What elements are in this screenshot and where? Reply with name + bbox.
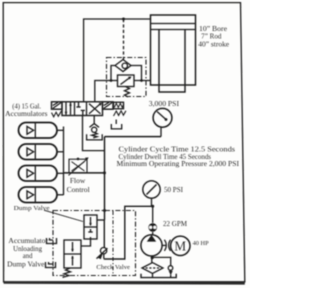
gauge G1 (153, 108, 172, 127)
cylinder barrel (151, 15, 196, 85)
svg-text:Accumulators: Accumulators (5, 110, 48, 118)
svg-text:10” Bore: 10” Bore (199, 26, 227, 33)
cylinder rod (159, 30, 185, 93)
check ball (92, 127, 97, 132)
leader line (44, 210, 83, 221)
node J4 enclosure entry (103, 209, 106, 212)
enclosure counterbalance (dash-dot) (107, 58, 147, 97)
svg-text:Dump Valve: Dump Valve (7, 262, 44, 269)
wire V1 to V2 (81, 239, 91, 246)
drain tank left upper (50, 238, 54, 240)
spring V2 (63, 268, 71, 277)
svg-text:50 PSI: 50 PSI (164, 186, 184, 194)
wire pump line to check (104, 206, 153, 259)
wire pump column upper (152, 206, 154, 223)
wire valve T-port (83, 116, 105, 151)
check spring (92, 132, 98, 138)
svg-text:and: and (23, 253, 33, 260)
svg-text:Check Valve: Check Valve (96, 264, 130, 271)
wire accumulator bus (63, 127, 65, 196)
solenoid right (103, 102, 114, 109)
position center blocked (78, 102, 80, 107)
check valve CV2 (103, 254, 105, 259)
drain tank left lower (49, 262, 54, 264)
svg-text:Minimum Operating Pressure 2,0: Minimum Operating Pressure 2,000 PSI (117, 160, 240, 168)
drain stub right (115, 120, 117, 125)
motor M1 (171, 236, 190, 255)
accumulator A2 (19, 144, 58, 160)
valve body 4/3 (62, 102, 103, 116)
wire meter to pump (152, 232, 154, 235)
node J2 bypass right (140, 79, 143, 82)
wire pump suction (151, 256, 153, 263)
pump P1 (141, 235, 162, 256)
node suction (151, 256, 154, 259)
check valve P (seat) (90, 124, 100, 128)
wire flow control line (64, 172, 105, 174)
flow meter FM 22gpm (148, 223, 157, 232)
cylinder piston (151, 23, 196, 25)
dump valve V1 (84, 215, 97, 239)
bypass check (168, 266, 173, 271)
tank symbol T3 (111, 124, 121, 129)
node pump junction (151, 205, 154, 208)
accumulator A1 (19, 123, 58, 139)
check ball (122, 63, 127, 68)
pilot dash-dot (112, 211, 114, 275)
svg-text:40 HP: 40 HP (193, 240, 209, 247)
svg-text:7” Rod: 7” Rod (201, 34, 222, 41)
spring box right (114, 102, 124, 109)
border frame (3, 3, 245, 282)
wire bypass right (131, 66, 142, 81)
solenoid left (52, 102, 63, 109)
wire valve A-port to relief (95, 81, 118, 102)
svg-text:Unloading: Unloading (13, 246, 42, 253)
relief valve box (118, 75, 135, 87)
node J3 flow-control tap (103, 171, 106, 174)
relief arrow (121, 78, 131, 85)
svg-text:Dump Valve: Dump Valve (14, 205, 50, 212)
svg-text:Control: Control (67, 187, 90, 194)
svg-text:Flow: Flow (70, 178, 85, 185)
svg-text:M: M (174, 238, 186, 253)
border bottom thick (4, 281, 245, 284)
svg-text:22 GPM: 22 GPM (163, 220, 188, 228)
flow control FC (69, 159, 87, 173)
gauge stem (160, 127, 162, 137)
spring left (51, 111, 61, 117)
tank symbol T1 (87, 134, 103, 140)
wire bypass branch (152, 257, 171, 265)
accumulator A4 (19, 187, 58, 203)
enclosure dump circuit (dash-dot) (53, 211, 136, 276)
node J1 bypass left (110, 79, 113, 82)
svg-text:Accumulator: Accumulator (8, 238, 48, 245)
node pilot tap (122, 18, 125, 21)
wire pressure rail (105, 136, 162, 138)
wire pilot line (dashed) (123, 19, 125, 60)
accumulator A3 (19, 166, 58, 182)
wire valve P-port down (93, 116, 95, 125)
tank T2 (152, 273, 154, 277)
position P parallel arrows (65, 103, 67, 115)
shaft (162, 244, 166, 246)
position crossed (89, 104, 101, 114)
svg-text:40” stroke: 40” stroke (198, 42, 229, 49)
wire relief to cylinder rod end (134, 80, 151, 82)
relief spring (125, 87, 130, 97)
wire main riser (104, 137, 106, 220)
wire bypass left (111, 66, 115, 81)
coupling (164, 240, 166, 251)
wire riser to V1 (97, 219, 105, 221)
filter F1 (142, 263, 163, 274)
wire cylinder cap-end port (84, 19, 151, 102)
unloading valve V2 (64, 240, 81, 268)
spring right (114, 111, 126, 116)
check valve CV1 diamond (115, 60, 131, 72)
gauge G2 50psi (143, 181, 160, 198)
svg-text:3,000 PSI: 3,000 PSI (149, 100, 180, 108)
